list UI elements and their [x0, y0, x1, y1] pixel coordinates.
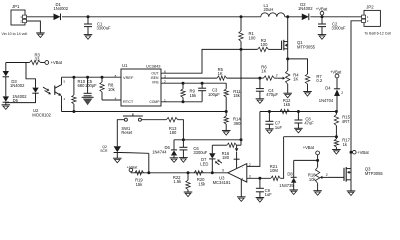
svg-text:JP1: JP1	[12, 4, 20, 9]
svg-text:1K: 1K	[261, 68, 266, 73]
wire VFB pin2	[161, 82, 226, 84]
connector JP2	[364, 10, 380, 26]
resistor R10 680	[72, 76, 75, 79]
svg-text:Vin 10 to 14 volt: Vin 10 to 14 volt	[2, 32, 28, 36]
wire D8 tap to R18 top	[294, 159, 318, 161]
svg-text:1.5k: 1.5k	[173, 179, 182, 184]
ground below C1	[84, 34, 93, 36]
svg-text:2: 2	[326, 173, 328, 177]
svg-text:+VBat: +VBat	[127, 164, 139, 169]
diode D3 1N4002	[5, 63, 7, 72]
zener D6 1N4744	[173, 140, 175, 150]
ground below R14	[222, 130, 231, 132]
resistor R14 390	[225, 112, 227, 117]
zener D4 1N4704	[336, 78, 338, 89]
svg-text:+VBat: +VBat	[330, 69, 342, 74]
capacitor C7 1uF	[268, 112, 270, 122]
node junction R1 bottom	[240, 48, 243, 51]
svg-text:MOC8102: MOC8102	[32, 113, 51, 118]
svg-text:D8: D8	[287, 172, 293, 177]
ground below C4	[256, 98, 265, 100]
thyristor Q2 SCR	[114, 146, 121, 152]
node junction C8	[297, 110, 300, 113]
node junction at R1	[240, 15, 243, 18]
svg-text:+VBat: +VBat	[303, 145, 315, 150]
node +VBat at R18	[316, 151, 320, 155]
svg-text:1k5: 1k5	[283, 102, 290, 107]
svg-text:390: 390	[234, 121, 242, 126]
wire VREF rail	[62, 76, 122, 78]
svg-text:1N4002: 1N4002	[54, 6, 69, 11]
svg-text:20uH: 20uH	[264, 7, 274, 12]
node junction at C2	[321, 15, 324, 18]
svg-text:15k: 15k	[233, 93, 241, 98]
wire Q2 gate riser	[148, 153, 150, 173]
wire R21 riser to divider	[280, 137, 283, 179]
svg-text:LED: LED	[200, 161, 208, 166]
svg-text:10M: 10M	[270, 168, 279, 173]
node junction D4 R15	[335, 110, 338, 113]
svg-text:1N4704: 1N4704	[319, 98, 334, 103]
svg-text:6: 6	[164, 70, 166, 74]
resistor R3 33	[6, 62, 30, 64]
node junction at C1	[87, 15, 90, 18]
node junction C4	[258, 77, 261, 80]
optocoupler U2 light arrows	[43, 87, 47, 89]
ground below R22	[184, 191, 193, 193]
wire R6 to R4 wiper	[274, 77, 277, 79]
ground below D5	[2, 104, 11, 106]
resistor R5 1K on ISEN	[217, 76, 227, 80]
ground below R4	[283, 92, 292, 94]
svg-text:15k: 15k	[136, 182, 144, 187]
svg-text:100: 100	[249, 35, 257, 40]
svg-text:4R7: 4R7	[342, 119, 350, 124]
wire R2 to Q1 gate	[269, 48, 282, 50]
svg-text:D4: D4	[325, 85, 331, 90]
wire ISEN pin3	[161, 77, 217, 79]
capacitor C9 1uF	[259, 178, 261, 188]
wire SW1 left to Q2	[117, 120, 124, 147]
capacitor C1 3300uF	[87, 17, 89, 24]
wire JP1 pin2 to ground	[27, 21, 41, 33]
svg-text:6: 6	[222, 168, 224, 172]
svg-text:1N4735: 1N4735	[279, 183, 294, 188]
wire R12 rail	[260, 111, 337, 113]
svg-text:-: -	[242, 165, 243, 169]
node +VBat top	[320, 11, 324, 15]
capacitor C6 3300uF	[182, 140, 184, 148]
node junction D7 bottom	[211, 171, 214, 174]
optocoupler U2 MOC8102 LED	[26, 63, 36, 88]
capacitor C8 47uF	[297, 112, 299, 121]
resistor R9 15k	[182, 83, 184, 89]
svg-text:10k: 10k	[309, 177, 317, 182]
node junction Q1 source	[286, 57, 289, 60]
node junction Q2 gate riser	[147, 171, 150, 174]
wire R18 wiper to Q3 gate	[328, 176, 344, 178]
wire Q1 source to R7	[288, 59, 308, 74]
svg-text:+VBat: +VBat	[51, 60, 63, 65]
svg-text:1K: 1K	[293, 77, 298, 82]
ground below C8	[294, 127, 303, 129]
svg-text:180: 180	[169, 130, 177, 135]
ground below JP1	[36, 32, 45, 34]
svg-text:MTP3055: MTP3055	[297, 45, 316, 50]
wire COMP pin1	[161, 101, 202, 103]
resistor R15 4R7	[335, 112, 337, 115]
svg-text:680: 680	[78, 83, 86, 88]
svg-text:MC34181: MC34181	[213, 180, 232, 185]
capacitor C2 3300uF	[321, 17, 323, 24]
wire R1 node to L1	[241, 16, 261, 18]
wire op-amp pin2 riser	[247, 112, 260, 167]
node junction R11 R14 rail	[225, 110, 228, 113]
capacitor C4 470uF	[259, 78, 261, 89]
svg-text:100pF: 100pF	[85, 83, 97, 88]
svg-text:1uF: 1uF	[265, 192, 273, 197]
node junction C7	[268, 110, 271, 113]
ground below Q3	[347, 190, 356, 192]
resistor R17 1k	[335, 137, 337, 139]
ground below R18	[313, 190, 322, 192]
svg-text:100µF: 100µF	[208, 92, 220, 97]
zener D8 1N4735	[293, 160, 295, 177]
optocoupler U2 phototransistor	[54, 86, 56, 95]
op-amp U3 MC34181	[228, 164, 247, 183]
wire op-amp pin3	[247, 177, 271, 179]
svg-text:3300uF: 3300uF	[332, 26, 347, 31]
wire C1 to R1 node	[88, 16, 241, 18]
svg-text:SCR: SCR	[100, 149, 108, 153]
potentiometer R4 1K	[287, 59, 289, 71]
node junction C3 top	[201, 82, 204, 85]
wire D1 to C1	[62, 16, 88, 18]
resistor R19 15k	[135, 171, 144, 175]
IC U1 UC3843 box	[121, 69, 161, 106]
node junction Q1 drain	[286, 15, 289, 18]
wire R13 to D6 rail riser	[178, 120, 184, 140]
svg-text:47uF: 47uF	[304, 121, 314, 126]
svg-text:1K: 1K	[218, 71, 223, 76]
diode D2 1N4002	[302, 14, 309, 21]
resistor R16 180	[227, 143, 237, 147]
op-amp V- to ground	[240, 180, 242, 197]
ground below C2	[318, 34, 327, 36]
wire ISEN to C4 node	[227, 77, 260, 79]
wire to R6	[260, 77, 264, 79]
op-amp V+ diode mark	[236, 145, 238, 148]
node junction R10 bottom rail	[72, 110, 75, 113]
resistor R1 100	[240, 17, 242, 31]
resistor R2 100	[258, 47, 269, 51]
transistor Q1 MTP3055	[281, 41, 283, 50]
node junction R9 top	[182, 82, 185, 85]
vertical wire x241 down to D6 rail	[240, 49, 242, 139]
resistor R13 180	[166, 118, 178, 122]
ground below C9	[256, 197, 265, 199]
resistor R20 15k	[194, 171, 203, 175]
svg-text:MTP3055: MTP3055	[365, 171, 383, 176]
ground below Q2	[113, 157, 122, 159]
node junction C9	[258, 177, 261, 180]
svg-text:VREF: VREF	[123, 75, 134, 80]
diode D1 1N4002	[54, 14, 61, 21]
svg-text:OUT: OUT	[151, 71, 158, 75]
node +VBat at D4	[335, 74, 339, 78]
node junction R15 R17	[335, 135, 338, 138]
svg-text:2: 2	[276, 74, 278, 78]
ground below op-amp	[237, 196, 246, 198]
capacitor C5 100pF	[86, 76, 89, 79]
svg-text:To Batt 6-12 Cell: To Batt 6-12 Cell	[364, 31, 391, 35]
svg-text:100: 100	[261, 42, 269, 47]
resistor R6 1K	[264, 76, 275, 80]
wire SW1 right to R13	[141, 119, 166, 121]
svg-text:UC3843: UC3843	[146, 63, 161, 68]
node junction COMP R9	[182, 100, 185, 103]
node junction rail end	[240, 138, 243, 141]
diode D5 1N4002	[3, 96, 9, 101]
svg-text:0.2: 0.2	[316, 78, 322, 83]
ground below R7	[303, 91, 312, 93]
svg-text:1N4744: 1N4744	[152, 149, 167, 154]
wire L1 to Q1 drain node	[285, 16, 302, 18]
svg-text:1uF: 1uF	[275, 125, 283, 130]
svg-text:+VBat: +VBat	[357, 150, 369, 155]
pushbutton SW1 Reset	[124, 118, 127, 121]
svg-text:180: 180	[222, 155, 230, 160]
svg-text:Reset: Reset	[121, 130, 133, 135]
wire D6 C6 rail	[174, 139, 241, 141]
resistor R7 0.2	[305, 74, 309, 84]
ground below C7	[265, 128, 274, 130]
wire RTCT pin4	[102, 99, 121, 101]
svg-text:10k: 10k	[108, 87, 116, 92]
ground below D8	[289, 189, 298, 191]
potentiometer R18 10k	[317, 155, 319, 167]
svg-text:470µF: 470µF	[266, 92, 278, 97]
wire divider to R21 riser	[284, 136, 337, 138]
node +VBat at R19	[129, 168, 133, 172]
svg-text:33: 33	[35, 57, 40, 62]
wire JP2 pin2 to right rail	[351, 21, 362, 152]
node junction C6	[182, 138, 185, 141]
transistor Q3 MTP3055	[343, 168, 345, 181]
svg-text:15k: 15k	[190, 93, 198, 98]
inductor L1 20uH	[261, 13, 285, 17]
wire JP1 pin1 to D1	[27, 16, 54, 18]
resistor R8 10k	[101, 76, 104, 79]
svg-text:U1: U1	[122, 63, 128, 68]
node +VBat at R3	[45, 61, 49, 65]
node +VBat right rail	[350, 151, 353, 154]
resistor R12 1k5	[280, 109, 290, 113]
diode D7 LED	[211, 145, 213, 153]
svg-text:3300uF: 3300uF	[97, 26, 112, 31]
wire rail1 to rail2 connector	[240, 140, 242, 145]
svg-text:3300uF: 3300uF	[193, 150, 207, 155]
wire rail2 D7 R16	[212, 144, 227, 146]
connector JP1	[11, 10, 25, 25]
svg-text:1N4002: 1N4002	[10, 83, 25, 88]
capacitor C3 100uF	[201, 83, 203, 88]
svg-text:ISEN: ISEN	[151, 76, 159, 80]
wire U1 OUT to R2	[161, 49, 258, 73]
svg-text:2: 2	[341, 91, 343, 95]
feedback rail wire	[62, 111, 227, 113]
svg-text:+VBat: +VBat	[316, 6, 328, 11]
resistor R11 15k	[225, 83, 227, 89]
svg-text:15k: 15k	[198, 181, 206, 186]
ground below C6	[179, 157, 188, 159]
svg-text:1N4002: 1N4002	[298, 6, 313, 11]
resistor R22 1.5k	[187, 171, 190, 174]
wire output net	[131, 172, 228, 174]
ground below C5 big	[82, 96, 94, 98]
svg-text:VFB: VFB	[152, 80, 159, 84]
svg-text:RTCT: RTCT	[123, 99, 134, 104]
svg-text:COMP: COMP	[149, 100, 160, 104]
wire D2 to JP2	[310, 16, 361, 18]
svg-text:JP2: JP2	[366, 5, 374, 10]
ground below R17	[332, 149, 341, 151]
resistor R21 10M	[271, 176, 281, 180]
ground below D6	[170, 157, 179, 159]
